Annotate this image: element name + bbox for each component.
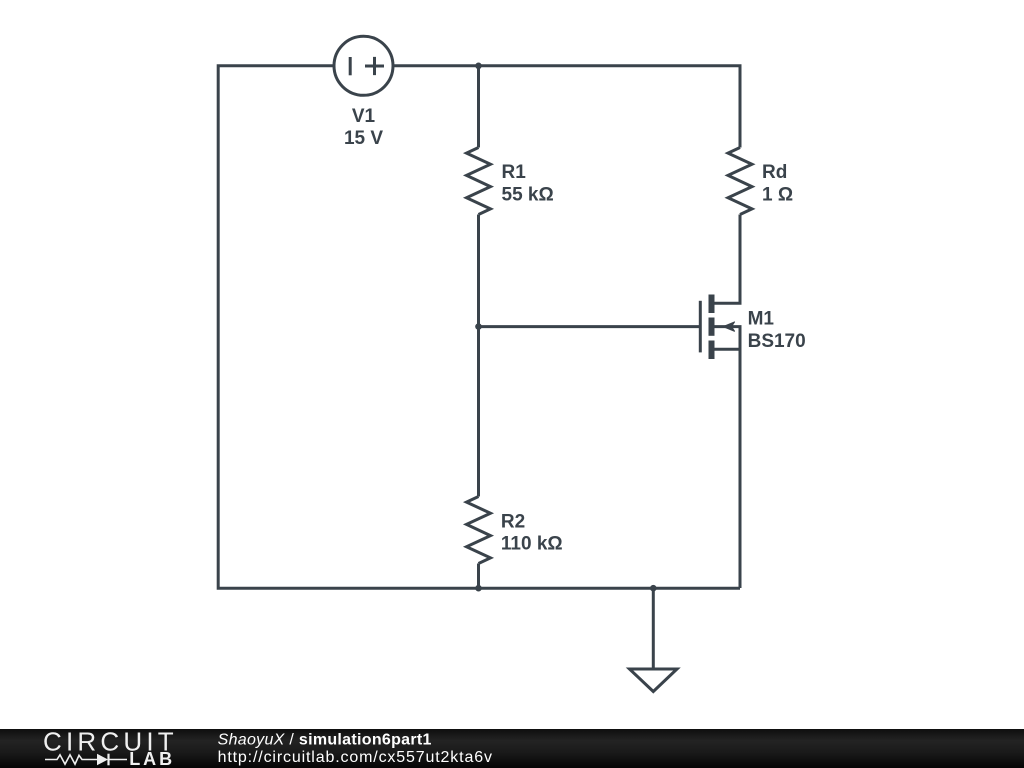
svg-text:R1: R1 [502,162,527,183]
node ground junction [650,585,657,592]
node bottom junction [475,585,482,592]
node gate junction [475,323,482,330]
wire: node A to R1 [477,66,480,148]
resistor Rd [728,148,752,215]
svg-text:ShaoyuX / simulation6part1: ShaoyuX / simulation6part1 [218,731,432,748]
wire: ground stub [652,588,655,669]
label Rd 1 Ohm [762,162,793,206]
label V1 15 V [344,106,383,149]
svg-text:LAB: LAB [129,749,175,768]
svg-text:15 V: 15 V [344,128,383,149]
node A (top junction) [475,63,482,70]
wire: gate [479,325,701,328]
svg-text:Rd: Rd [762,162,787,183]
resistor R1 [467,148,491,215]
voltage source V1 [334,36,393,95]
svg-text:V1: V1 [352,106,376,127]
wire: top rail left of V1, left rail, bottom rail [218,66,740,588]
label R2 110 kOhm [501,512,563,555]
logo resistor-diode symbol [45,754,127,766]
svg-text:http://circuitlab.com/cx557ut2: http://circuitlab.com/cx557ut2kta6v [218,749,493,766]
svg-text:R2: R2 [501,512,525,533]
resistor R2 [467,497,491,564]
ground [630,669,678,692]
wire: R2 to bottom rail [477,564,480,589]
wire: top rail right of V1 and Rd top lead [393,66,740,148]
svg-text:1 Ω: 1 Ω [762,185,793,206]
footer bar [0,729,1024,768]
svg-text:M1: M1 [748,309,775,330]
label R1 55 kOhm [502,162,554,206]
wire: Rd bottom lead down to MOSFET drain [711,215,740,304]
label M1 BS170 [748,309,806,353]
transistor M1 [700,295,740,589]
svg-text:55 kΩ: 55 kΩ [502,185,554,206]
wire: R1 to R2 (mid rail) [477,215,480,497]
svg-text:110 kΩ: 110 kΩ [501,534,563,555]
svg-text:BS170: BS170 [748,331,806,352]
